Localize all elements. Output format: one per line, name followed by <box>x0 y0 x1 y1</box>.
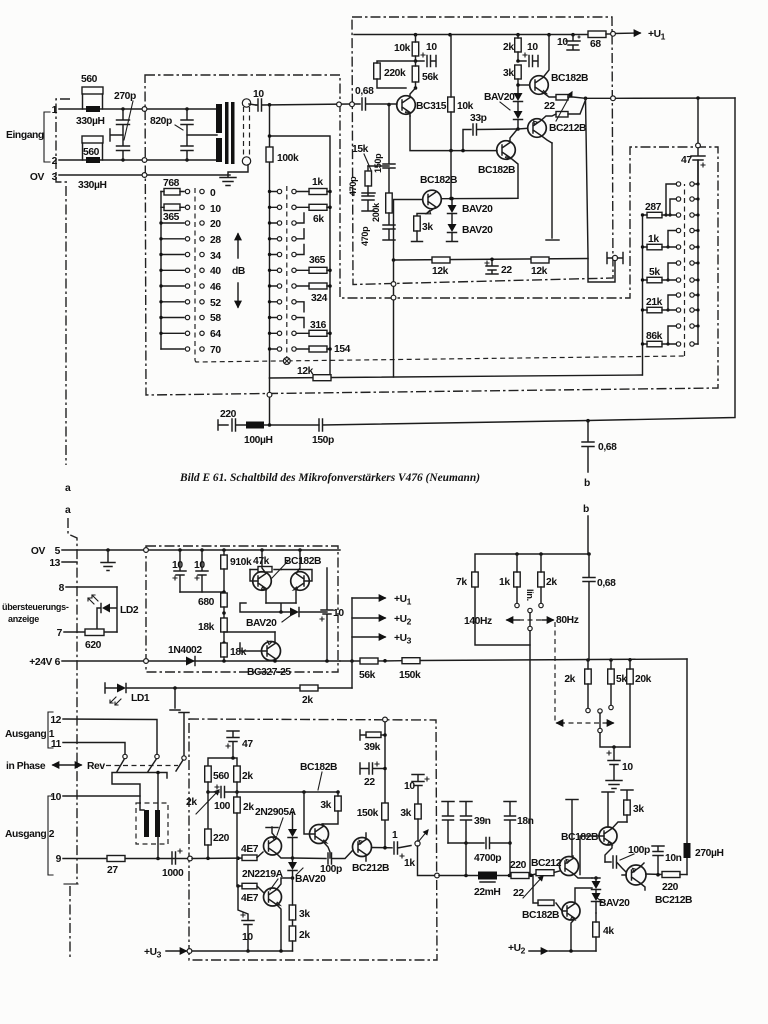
svg-text:316: 316 <box>310 320 327 331</box>
svg-text:68: 68 <box>590 39 601 50</box>
svg-text:22: 22 <box>364 777 375 788</box>
capacitor 4700p <box>466 838 510 865</box>
inductor 100uH <box>244 422 319 447</box>
capacitor 100p bottom right <box>605 845 650 872</box>
resistor 12k right <box>531 257 549 277</box>
svg-text:52: 52 <box>210 298 221 309</box>
svg-text:27: 27 <box>107 865 118 876</box>
svg-text:BAV20: BAV20 <box>295 874 326 885</box>
terminal 11 wire <box>51 739 125 754</box>
bank2 contact circles <box>277 189 296 351</box>
module box attenuator+relay outline <box>145 75 718 395</box>
open circle on box edge x270 <box>267 378 272 425</box>
bank1 wiper dashed <box>194 188 196 361</box>
transistor BC182B output driver <box>300 762 337 858</box>
amp bottom rail <box>392 258 588 262</box>
svg-text:560: 560 <box>81 74 98 85</box>
terminal bar BC212B emitter <box>546 143 559 240</box>
Ausgang 1 label bracket <box>5 712 55 748</box>
svg-text:0,68: 0,68 <box>355 86 374 97</box>
svg-text:BC182B: BC182B <box>284 556 321 567</box>
dB label with arrows <box>232 234 245 307</box>
svg-text:33p: 33p <box>470 113 487 124</box>
trimmer 2k output <box>186 790 219 814</box>
svg-text:10n: 10n <box>665 853 682 864</box>
svg-text:100p: 100p <box>628 845 650 856</box>
svg-text:10: 10 <box>172 560 183 571</box>
svg-text:220: 220 <box>213 833 230 844</box>
wire input 2 <box>59 158 217 163</box>
resistor 18k lower <box>221 643 247 663</box>
svg-text:200k: 200k <box>371 202 381 222</box>
amp left vertical x393 <box>391 200 423 378</box>
resistor 560 output <box>205 766 230 829</box>
svg-text:1k: 1k <box>499 577 510 588</box>
resistor 2k output upper <box>234 766 254 797</box>
wire input 1 <box>59 107 217 112</box>
resistor 316 bank2 <box>296 320 332 336</box>
capacitor 0,68 b-line <box>582 421 617 555</box>
svg-text:OV: OV <box>31 546 46 557</box>
svg-text:100p: 100p <box>320 864 342 875</box>
svg-text:270p: 270p <box>114 91 136 102</box>
transistor BC315 <box>397 88 447 116</box>
svg-text:3k: 3k <box>503 68 514 79</box>
svg-text:100µH: 100µH <box>244 435 273 446</box>
trimmer contact output <box>404 830 435 876</box>
resistor 324 bank2 <box>296 283 332 304</box>
transistor BC182B psu left <box>250 550 271 603</box>
resistor 56k rail <box>359 658 378 681</box>
resistor 365 bank2 <box>296 255 332 273</box>
svg-text:39k: 39k <box>364 742 381 753</box>
svg-text:34: 34 <box>210 251 221 262</box>
svg-text:5k: 5k <box>616 674 627 685</box>
inductor 22mH <box>474 872 500 899</box>
svg-text:2: 2 <box>52 156 58 167</box>
attenuator bank1 rows <box>159 221 184 349</box>
capacitor 39n column <box>442 802 491 876</box>
transistor 2N2905A <box>255 807 297 858</box>
svg-text:21k: 21k <box>646 297 663 308</box>
svg-text:2k: 2k <box>186 797 197 808</box>
svg-text:+U3: +U3 <box>144 947 162 960</box>
svg-text:0,68: 0,68 <box>597 578 616 589</box>
resistor 47k psu <box>250 556 288 578</box>
svg-text:22: 22 <box>501 265 512 276</box>
capacitor 22 electrolytic amp <box>485 260 512 276</box>
svg-text:13: 13 <box>49 558 60 569</box>
svg-text:+U1: +U1 <box>394 594 412 607</box>
svg-text:BC182B: BC182B <box>478 165 515 176</box>
resistor 1k filter <box>499 554 520 608</box>
resistor 220 output <box>205 829 230 858</box>
svg-text:10: 10 <box>210 204 221 215</box>
resistor 68 <box>588 31 611 50</box>
capacitor 18n column <box>504 802 534 876</box>
resistor 5k right ladder <box>641 267 677 283</box>
svg-text:10: 10 <box>333 608 344 619</box>
capacitor 10 mixer <box>606 747 633 789</box>
caption Bild E 61 <box>179 472 480 484</box>
svg-text:100k: 100k <box>277 153 299 164</box>
svg-text:1k: 1k <box>648 234 659 245</box>
svg-text:BC212B: BC212B <box>352 863 389 874</box>
resistor 4E7 lower <box>236 883 264 904</box>
svg-text:620: 620 <box>85 640 102 651</box>
capacitor 10 psu right <box>180 550 224 592</box>
resistor 365 bank1 <box>161 204 184 223</box>
140Hz wiper dashed link <box>555 622 613 723</box>
svg-text:15k: 15k <box>352 144 369 155</box>
capacitor 22 output <box>360 762 387 788</box>
svg-text:BAV20: BAV20 <box>462 204 493 215</box>
svg-text:OV: OV <box>30 172 45 183</box>
svg-text:2N2219A: 2N2219A <box>242 869 284 880</box>
terminal 12 wire <box>50 715 157 754</box>
svg-text:47: 47 <box>242 739 253 750</box>
right ladder hook wires <box>664 184 676 346</box>
signal rail bottom <box>435 871 560 878</box>
resistor 560 lower <box>82 136 103 160</box>
svg-text:Eingang: Eingang <box>6 130 44 141</box>
resistor 5k mixer <box>608 660 628 710</box>
svg-text:7: 7 <box>57 628 63 639</box>
wire 220/100uH line <box>218 409 246 431</box>
capacitor 10 psu output <box>320 568 344 663</box>
wire to right corner <box>586 98 735 423</box>
left boundary dash-dot spine <box>56 99 78 957</box>
resistor 2k output bottom <box>289 926 310 951</box>
capacitor 10 bias chain <box>404 775 429 805</box>
svg-text:+U2: +U2 <box>508 943 526 956</box>
transistor BC182B bottom mid <box>522 888 592 951</box>
svg-text:70: 70 <box>210 345 221 356</box>
capacitor 10 stub input stage <box>414 42 438 67</box>
resistor 3k bias <box>400 804 421 841</box>
svg-text:768: 768 <box>163 178 180 189</box>
svg-text:1N4002: 1N4002 <box>168 645 202 656</box>
svg-text:470p: 470p <box>348 176 358 196</box>
svg-text:220: 220 <box>220 409 237 420</box>
+U1 supply arrow <box>611 29 666 42</box>
input terminal 2 label <box>52 156 58 167</box>
transistor BC182B driver <box>441 129 518 199</box>
in Phase Rev labels <box>6 761 178 772</box>
resistor 2k mixer <box>564 660 591 713</box>
capacitor 10 output <box>238 886 254 953</box>
svg-text:28: 28 <box>210 235 221 246</box>
svg-text:BC212B: BC212B <box>655 895 692 906</box>
input terminal 1 label <box>52 105 58 116</box>
capacitor 47 output <box>208 731 253 766</box>
svg-text:BC212B: BC212B <box>549 123 586 134</box>
svg-text:4E7: 4E7 <box>241 893 259 904</box>
transistor BC327-25 <box>224 632 291 678</box>
relay control dashed line <box>195 184 685 362</box>
svg-text:7k: 7k <box>456 577 467 588</box>
svg-text:2k: 2k <box>243 802 254 813</box>
svg-text:3k: 3k <box>320 800 331 811</box>
resistor 22 base bottom <box>533 876 554 906</box>
diode BAV20 upper pair <box>484 83 523 131</box>
svg-text:10: 10 <box>557 37 568 48</box>
svg-text:+U3: +U3 <box>394 633 412 646</box>
svg-text:4700p: 4700p <box>474 853 501 864</box>
svg-text:365: 365 <box>309 255 326 266</box>
resistor 86k right ladder <box>641 331 677 347</box>
svg-text:a: a <box>65 505 71 516</box>
capacitor 150p line <box>312 419 588 446</box>
svg-text:22: 22 <box>544 101 555 112</box>
capacitor 10 stub second stage <box>516 42 538 67</box>
resistor 910k <box>221 550 252 594</box>
svg-text:18k: 18k <box>230 647 247 658</box>
terminal 10 wire <box>50 792 140 803</box>
svg-text:Ausgang 2: Ausgang 2 <box>5 829 55 840</box>
terminal 5 OV wire <box>31 546 340 557</box>
svg-text:BAV20: BAV20 <box>484 92 515 103</box>
resistor 3k bottom right <box>621 790 644 822</box>
svg-text:1: 1 <box>52 105 58 116</box>
node line to second ladder bus <box>268 105 330 378</box>
LED LD2 <box>88 587 139 632</box>
resistor 100k <box>266 147 299 164</box>
resistor 768 <box>161 178 184 195</box>
capacitor 10 series <box>253 89 350 111</box>
svg-text:12: 12 <box>50 715 61 726</box>
svg-text:3k: 3k <box>422 222 433 233</box>
svg-text:5k: 5k <box>649 267 660 278</box>
attenuator bank1 bus <box>160 192 162 350</box>
diode BAV20 output chain <box>288 812 326 885</box>
resistor 18k upper <box>198 618 227 645</box>
svg-text:680: 680 <box>198 597 215 608</box>
BC315 emitter feedback wire <box>410 116 497 152</box>
resistor 56k <box>412 61 438 90</box>
svg-text:220: 220 <box>510 860 527 871</box>
+U3 feed wire <box>144 947 293 960</box>
wire 12k row <box>270 375 643 379</box>
svg-text:64: 64 <box>210 329 221 340</box>
capacitor 100p output <box>293 851 353 875</box>
svg-text:330µH: 330µH <box>76 116 105 127</box>
diode 1N4002 <box>168 645 202 666</box>
resistor 4k <box>593 913 615 951</box>
filter box wires <box>475 552 591 645</box>
resistor 20k mixer <box>627 660 652 747</box>
svg-text:150p: 150p <box>312 435 334 446</box>
capacitor 10 electrolytic rail <box>557 35 580 51</box>
bank2 hook wires <box>296 213 304 328</box>
svg-text:b: b <box>583 504 589 515</box>
terminal 7 wire <box>57 628 117 639</box>
capacitor 100 output <box>208 785 237 812</box>
svg-text:820p: 820p <box>150 116 172 127</box>
diode BAV20 br chain <box>592 876 631 913</box>
svg-text:4E7: 4E7 <box>241 844 259 855</box>
uebersteuerungsanzeige label <box>2 602 69 624</box>
phase switch lower wiring <box>112 771 167 812</box>
svg-text:324: 324 <box>311 293 328 304</box>
svg-text:BC315: BC315 <box>416 101 447 112</box>
stub from LD1 node <box>170 688 180 710</box>
svg-text:Ausgang 1: Ausgang 1 <box>5 729 55 740</box>
svg-text:4k: 4k <box>603 926 614 937</box>
diode BAV20 psu <box>246 608 327 630</box>
transistor BC212B upper <box>518 114 586 143</box>
resistor 12k bank2 <box>297 366 331 381</box>
amplifier module box <box>352 17 613 285</box>
svg-text:3k: 3k <box>299 909 310 920</box>
svg-text:BAV20: BAV20 <box>462 225 493 236</box>
ground on OV wire <box>101 550 115 571</box>
svg-text:10: 10 <box>426 42 437 53</box>
terminal 6 +24V wire <box>29 657 340 668</box>
svg-text:anzeige: anzeige <box>8 614 39 624</box>
svg-text:560: 560 <box>213 771 230 782</box>
svg-text:2k: 2k <box>503 42 514 53</box>
svg-text:2k: 2k <box>242 771 253 782</box>
main supply rail <box>340 658 687 663</box>
capacitor 820p pair <box>150 107 217 161</box>
inductor 270uH <box>684 659 724 875</box>
svg-text:3k: 3k <box>400 808 411 819</box>
transistor BC212B bottom right <box>622 863 692 906</box>
svg-text:11: 11 <box>51 739 62 750</box>
svg-text:2N2905A: 2N2905A <box>255 807 297 818</box>
right ladder left bus <box>642 215 644 375</box>
svg-text:6: 6 <box>55 657 61 668</box>
svg-text:150p: 150p <box>373 153 383 173</box>
svg-text:560: 560 <box>83 147 100 158</box>
right ladder right bus <box>695 160 700 344</box>
resistor 3k output <box>289 878 310 926</box>
resistor 39k <box>360 717 387 848</box>
lin label rotated <box>525 589 535 601</box>
psu emitter join wire <box>240 603 296 614</box>
svg-text:18k: 18k <box>198 622 215 633</box>
input terminal 3 label <box>30 172 58 183</box>
bank1 contact circles <box>185 189 204 351</box>
resistor 287 <box>641 202 677 218</box>
svg-text:86k: 86k <box>646 331 663 342</box>
transistor BC212 bottom <box>531 800 592 879</box>
svg-text:470p: 470p <box>360 226 370 246</box>
svg-text:1k: 1k <box>312 177 323 188</box>
capacitor 10n <box>652 846 682 877</box>
+U2 feed wire <box>508 943 596 956</box>
svg-text:+U1: +U1 <box>648 29 666 42</box>
svg-text:+24V: +24V <box>29 657 52 668</box>
Ausgang 2 label bracket <box>5 796 55 875</box>
resistor 2k psu out <box>300 661 352 706</box>
transistor BC182B psu right <box>281 550 321 603</box>
resistor 150k rail <box>399 658 421 681</box>
capacitor 33p <box>461 113 517 152</box>
svg-text:10: 10 <box>242 932 253 943</box>
shield symbol on dashed line <box>283 358 290 365</box>
resistor 220k <box>374 61 416 88</box>
140Hz 80Hz switch <box>464 608 579 875</box>
svg-text:58: 58 <box>210 313 221 324</box>
amp top supply rail <box>354 33 588 37</box>
svg-text:22mH: 22mH <box>474 887 500 898</box>
resistor 1k right ladder <box>641 234 677 250</box>
svg-text:lin.: lin. <box>525 589 535 601</box>
svg-text:56k: 56k <box>422 72 439 83</box>
resistor 27 <box>107 856 125 877</box>
resistor 680 <box>198 593 227 618</box>
svg-text:20: 20 <box>210 219 221 230</box>
svg-text:LD2: LD2 <box>120 605 139 616</box>
inductor 330uH upper <box>76 106 105 127</box>
terminal 9 wire <box>56 854 256 865</box>
wire input 3 <box>59 173 230 178</box>
svg-text:Rev: Rev <box>87 761 105 772</box>
svg-text:8: 8 <box>59 583 65 594</box>
supply output arrows <box>350 594 411 663</box>
svg-text:übersteuerungs-: übersteuerungs- <box>2 602 69 612</box>
svg-text:46: 46 <box>210 282 221 293</box>
svg-text:1: 1 <box>392 830 398 841</box>
interconnect b labels <box>583 478 590 515</box>
svg-text:in Phase: in Phase <box>6 761 46 772</box>
transistor BC182B lower <box>417 151 457 216</box>
svg-text:365: 365 <box>163 212 180 223</box>
trimmer 22 bottom <box>513 870 554 899</box>
resistor 12k left <box>432 257 450 277</box>
resistor 1k bank2 <box>296 177 332 195</box>
svg-text:9: 9 <box>56 854 62 865</box>
wire 100 node to 3k <box>237 790 340 794</box>
svg-text:BC327-25: BC327-25 <box>247 667 291 678</box>
terminal 8 wire <box>59 583 117 594</box>
stub above phase switch <box>179 713 189 757</box>
resistor 7k <box>456 572 478 588</box>
svg-text:80Hz: 80Hz <box>556 615 579 626</box>
diode BAV20 pair lower <box>447 197 494 242</box>
svg-text:12k: 12k <box>432 266 449 277</box>
svg-text:3: 3 <box>52 172 58 183</box>
interconnect a labels <box>65 483 71 516</box>
resistor 220 bottom right <box>662 872 687 894</box>
svg-text:22: 22 <box>513 888 524 899</box>
LED LD1 wire <box>105 683 352 705</box>
transistor 2N2219A <box>242 869 293 951</box>
resistor 3k lower <box>412 216 434 242</box>
svg-text:2k: 2k <box>564 674 575 685</box>
resistor 2k filter <box>538 554 558 608</box>
svg-text:10k: 10k <box>394 43 411 54</box>
svg-text:10: 10 <box>404 781 415 792</box>
resistor 560 upper <box>81 74 103 109</box>
resistor 3k amp <box>503 65 521 85</box>
svg-text:10: 10 <box>622 762 633 773</box>
svg-text:+U2: +U2 <box>394 614 412 627</box>
svg-text:0: 0 <box>210 188 216 199</box>
svg-text:BAV20: BAV20 <box>246 618 277 629</box>
svg-text:1k: 1k <box>404 858 415 869</box>
capacitor 1000 <box>162 849 184 879</box>
svg-text:154: 154 <box>334 344 351 355</box>
trimmer 22 resistors <box>544 92 586 121</box>
output transformer <box>136 803 168 860</box>
capacitor 270p pair <box>110 91 136 162</box>
capacitor 10 psu left <box>172 550 186 592</box>
input transformer <box>216 99 256 177</box>
svg-text:BC212: BC212 <box>531 858 562 869</box>
